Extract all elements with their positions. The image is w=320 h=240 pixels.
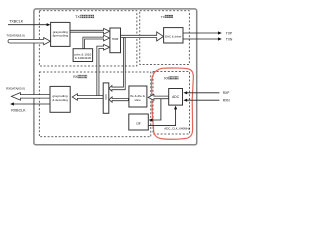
svg-text:&precoding: &precoding [52,34,68,38]
svg-text:RXP: RXP [223,91,230,95]
svg-text:ADC: ADC [172,95,180,99]
svg-text:slice: slice [134,98,140,102]
svg-text:TXN: TXN [226,37,233,41]
svg-text:TX: TX [161,15,165,19]
svg-text:mux: mux [112,37,118,41]
svg-text:TXDATA[63:0]: TXDATA[63:0] [6,34,24,38]
svg-text:RXBCLK: RXBCLK [11,108,26,112]
svg-text:RXDATA[63:0]: RXDATA[63:0] [6,87,25,91]
svg-text:TXBCLK: TXBCLK [9,20,24,24]
svg-text:& decoding: & decoding [52,98,68,102]
svg-text:DAC & driver: DAC & driver [165,34,181,38]
svg-text:RXN: RXN [223,99,230,103]
svg-text:& 11001100: & 11001100 [75,56,92,60]
svg-text:ADC_CLK_640MHz: ADC_CLK_640MHz [164,127,190,131]
svg-text:TXP: TXP [226,31,232,35]
svg-text:TX: TX [75,15,80,19]
